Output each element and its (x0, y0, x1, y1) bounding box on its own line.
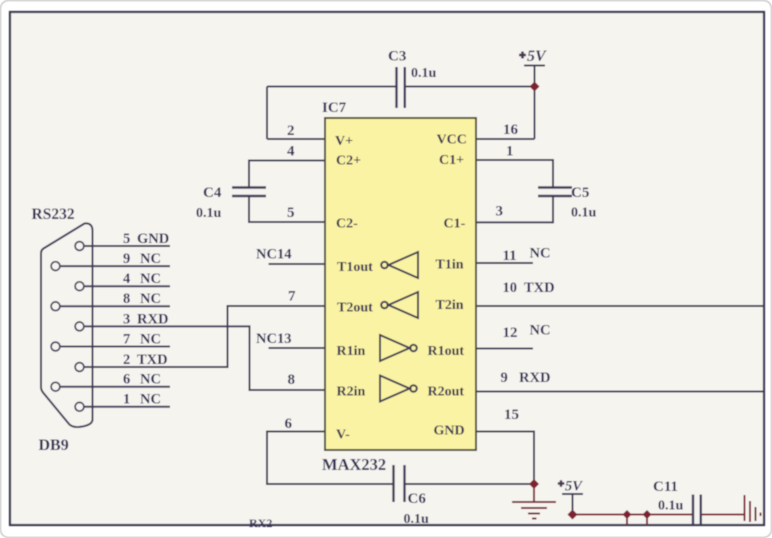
svg-text:1: 1 (506, 144, 514, 160)
svg-text:5V: 5V (527, 48, 547, 65)
svg-text:C11: C11 (653, 479, 678, 495)
svg-text:RS232: RS232 (32, 206, 75, 223)
svg-text:8: 8 (288, 372, 296, 388)
svg-text:C6: C6 (408, 491, 427, 507)
svg-text:0.1u: 0.1u (404, 512, 430, 527)
svg-text:NC: NC (140, 372, 161, 388)
svg-text:NC13: NC13 (256, 331, 291, 347)
svg-text:C3: C3 (388, 49, 406, 65)
svg-text:11: 11 (503, 248, 517, 264)
svg-text:NC: NC (140, 271, 161, 287)
svg-text:NC14: NC14 (256, 247, 291, 263)
svg-text:GND: GND (434, 424, 465, 439)
svg-text:RXD: RXD (519, 370, 550, 386)
svg-text:7: 7 (288, 289, 296, 305)
svg-text:5: 5 (287, 205, 295, 221)
svg-text:TXD: TXD (524, 280, 555, 296)
svg-text:16: 16 (503, 122, 519, 138)
svg-text:T2out: T2out (337, 301, 373, 316)
svg-text:VCC: VCC (437, 133, 467, 148)
svg-text:0.1u: 0.1u (411, 66, 437, 81)
svg-text:C2-: C2- (336, 217, 358, 232)
svg-text:NC: NC (140, 251, 161, 267)
svg-text:NC: NC (140, 291, 161, 307)
svg-text:V-: V- (336, 428, 350, 443)
svg-text:5V: 5V (565, 479, 583, 495)
svg-text:NC: NC (530, 323, 551, 339)
svg-text:T2in: T2in (436, 298, 464, 313)
svg-text:T1in: T1in (436, 258, 464, 273)
svg-text:7: 7 (123, 332, 130, 348)
svg-text:T1out: T1out (337, 260, 373, 275)
svg-text:9: 9 (501, 370, 508, 386)
svg-text:10: 10 (503, 280, 518, 296)
svg-text:0.1u: 0.1u (571, 206, 597, 221)
svg-text:12: 12 (503, 325, 518, 341)
svg-text:R2out: R2out (428, 385, 465, 400)
svg-text:6: 6 (123, 372, 130, 388)
svg-text:V+: V+ (335, 134, 353, 149)
svg-text:3: 3 (496, 204, 504, 220)
svg-text:C1-: C1- (444, 217, 466, 232)
svg-text:GND: GND (137, 231, 169, 247)
svg-text:NC: NC (140, 392, 161, 408)
svg-text:15: 15 (504, 407, 519, 423)
svg-text:C2+: C2+ (336, 154, 361, 169)
svg-text:NC: NC (530, 246, 551, 262)
svg-text:R1in: R1in (337, 344, 366, 359)
svg-text:IC7: IC7 (322, 100, 347, 116)
svg-text:0.1u: 0.1u (658, 499, 684, 514)
svg-text:C4: C4 (203, 185, 222, 201)
svg-text:6: 6 (285, 416, 293, 432)
svg-text:2: 2 (123, 352, 130, 368)
svg-text:R2in: R2in (337, 385, 366, 400)
svg-text:4: 4 (287, 144, 295, 160)
svg-text:RX2: RX2 (249, 516, 272, 530)
svg-text:R1out: R1out (428, 344, 465, 359)
svg-text:NC: NC (140, 332, 161, 348)
svg-text:TXD: TXD (137, 352, 168, 368)
svg-text:0.1u: 0.1u (196, 206, 222, 221)
svg-text:8: 8 (123, 291, 130, 307)
svg-text:DB9: DB9 (39, 437, 69, 454)
svg-text:RXD: RXD (137, 312, 168, 328)
svg-text:3: 3 (123, 312, 130, 328)
svg-text:9: 9 (123, 251, 130, 267)
svg-text:4: 4 (123, 271, 130, 287)
svg-text:C5: C5 (571, 185, 589, 201)
svg-text:2: 2 (287, 123, 295, 139)
svg-text:5: 5 (123, 231, 130, 247)
svg-text:MAX232: MAX232 (322, 455, 386, 474)
svg-text:C1+: C1+ (439, 153, 464, 168)
svg-text:1: 1 (123, 392, 130, 408)
